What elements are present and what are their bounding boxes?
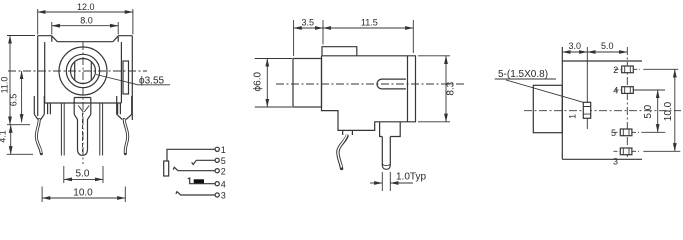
svg-text:3: 3 bbox=[221, 191, 226, 201]
side view straight pin bbox=[382, 137, 390, 170]
svg-text:1: 1 bbox=[221, 145, 226, 155]
side view dim 3.5 line bbox=[294, 27, 323, 29]
svg-text:1: 1 bbox=[568, 114, 578, 119]
side view dim phi6.0 line bbox=[266, 59, 268, 108]
front view body outline bbox=[38, 36, 133, 120]
dim 10.0 front line bbox=[42, 197, 125, 199]
front view inner bottom face bbox=[45, 102, 122, 104]
schematic wire pin1 bbox=[167, 149, 215, 161]
side view inner back line bbox=[407, 56, 409, 122]
dim 10.0 front extension lines bbox=[42, 187, 125, 203]
svg-text:ϕ3.55: ϕ3.55 bbox=[139, 76, 165, 87]
front view thin pin left bbox=[61, 103, 64, 156]
top view dim 5.0v extension lines bbox=[636, 90, 665, 132]
schematic wire pin5 bbox=[196, 159, 215, 161]
front view center pin bbox=[74, 114, 91, 155]
front view right bent leg bbox=[124, 119, 128, 154]
top view pin column centerline bbox=[626, 47, 628, 157]
top view dim 5.0h line bbox=[587, 51, 627, 53]
front view horizontal centerline bbox=[8, 70, 147, 72]
top view body bottom edge bbox=[562, 158, 642, 160]
svg-text:3.0: 3.0 bbox=[568, 41, 581, 51]
dim 8.0 extension lines bbox=[52, 22, 118, 35]
svg-text:2: 2 bbox=[221, 166, 226, 176]
svg-text:10.0: 10.0 bbox=[73, 187, 93, 198]
dim 11.0 extension lines bbox=[7, 36, 35, 125]
front view left slot stubs bbox=[48, 103, 51, 114]
top view pin1 extension line bbox=[586, 47, 588, 129]
top view pin 3 pad bbox=[614, 148, 640, 155]
schematic pin 4 circle bbox=[215, 182, 219, 186]
front view left post bbox=[34, 96, 44, 120]
schematic sleeve contact bbox=[164, 161, 169, 176]
side view dim 1.0Typ arrows bbox=[370, 182, 382, 184]
schematic wire pin4 bbox=[188, 178, 215, 184]
top view pin 5 pad bbox=[614, 129, 640, 136]
svg-text:5.0: 5.0 bbox=[601, 41, 614, 51]
front view center pin shoulder bbox=[74, 98, 91, 115]
svg-text:5.0: 5.0 bbox=[76, 168, 90, 179]
top view pin 1 pad bbox=[583, 102, 590, 118]
svg-text:1.0Typ: 1.0Typ bbox=[396, 171, 426, 182]
top view barrel bbox=[533, 85, 562, 132]
top view dim 10.0v extension lines bbox=[643, 69, 680, 151]
svg-text:11.5: 11.5 bbox=[361, 17, 378, 27]
side view front leg attachment bbox=[343, 130, 353, 135]
schematic pin4 contact pad bbox=[194, 179, 204, 183]
top view dim 10.0v line bbox=[674, 69, 676, 151]
front view hole left flat chord bbox=[74, 62, 76, 81]
dim 6.5 line bbox=[21, 71, 23, 122]
side view barrel bbox=[293, 59, 322, 108]
svg-text:4: 4 bbox=[613, 86, 618, 96]
front view inner wall right bbox=[120, 42, 122, 103]
front view vertical centerline bbox=[82, 42, 84, 164]
front view center pin dashed line bbox=[82, 113, 84, 152]
svg-text:5: 5 bbox=[611, 128, 616, 138]
dim 12.0 line bbox=[38, 11, 133, 13]
side view dim 8.3 extension lines bbox=[418, 56, 450, 122]
side view body outline bbox=[322, 56, 416, 131]
top view main centerline bbox=[524, 110, 681, 112]
dim 4.1 extension line bottom bbox=[7, 153, 33, 155]
side view dim 1.0Typ extension lines bbox=[382, 172, 390, 191]
front view hole right flat chord bbox=[90, 62, 92, 81]
schematic pin 3 circle bbox=[215, 193, 219, 197]
front view center pin funnel bbox=[78, 106, 89, 113]
front view right post bbox=[117, 96, 132, 120]
side view centerline bbox=[276, 83, 466, 85]
svg-text:3.5: 3.5 bbox=[301, 17, 314, 27]
side view pin shoulder bbox=[380, 122, 401, 137]
svg-text:6.5: 6.5 bbox=[9, 94, 19, 107]
svg-text:5: 5 bbox=[221, 156, 226, 166]
schematic pin 5 circle bbox=[215, 158, 219, 162]
schematic pin5 switch tick bbox=[192, 160, 197, 164]
svg-text:11.0: 11.0 bbox=[0, 77, 9, 94]
side view dim 11.5 line bbox=[323, 27, 413, 29]
top view dim 3.0 line bbox=[562, 51, 587, 53]
side view top tab bbox=[322, 47, 357, 56]
front view left bent leg bbox=[36, 119, 41, 154]
schematic wire pin2 bbox=[173, 167, 215, 170]
top view pin 4 pad bbox=[615, 87, 641, 94]
top view body left edge bbox=[561, 47, 563, 159]
schematic pin 1 circle bbox=[215, 147, 219, 151]
dim 5.0 front extension lines bbox=[64, 166, 103, 183]
dim 12.0 extension lines bbox=[38, 9, 133, 35]
svg-text:2: 2 bbox=[613, 65, 618, 75]
svg-text:4.1: 4.1 bbox=[0, 130, 8, 143]
svg-text:ϕ6.0: ϕ6.0 bbox=[253, 72, 264, 92]
svg-text:5-(1.5X0.8): 5-(1.5X0.8) bbox=[498, 69, 548, 80]
dim 4.1 line bbox=[10, 125, 12, 155]
svg-text:4: 4 bbox=[221, 179, 226, 189]
top view pin 2 pad bbox=[615, 66, 641, 73]
top view body top edge bbox=[562, 60, 642, 62]
front view inner wall left bbox=[44, 42, 46, 103]
top view dim 5.0v line bbox=[657, 90, 659, 132]
dim 8.0 line bbox=[52, 25, 118, 27]
schematic pin 2 circle bbox=[215, 169, 219, 173]
front view outer circle bbox=[59, 47, 107, 95]
schematic wire pin3 bbox=[176, 192, 215, 195]
top view leader underline bbox=[495, 78, 556, 80]
svg-text:8.3: 8.3 bbox=[446, 81, 457, 95]
svg-text:5.0: 5.0 bbox=[643, 104, 654, 118]
svg-text:10.0: 10.0 bbox=[663, 101, 674, 121]
dim 11.0 line bbox=[9, 36, 11, 125]
side view dim 8.3 line bbox=[445, 56, 447, 122]
leader phi3.55 bbox=[96, 75, 170, 85]
front view right slot stubs bbox=[118, 103, 121, 114]
side view slot capsule bbox=[377, 79, 406, 89]
dim 5.0 front line bbox=[64, 178, 103, 180]
front view inner hole circle bbox=[71, 59, 96, 84]
side view phi6.0 extension lines bbox=[255, 59, 292, 108]
front view thin pin right bbox=[100, 103, 103, 156]
front view middle circle bbox=[66, 54, 99, 87]
side view dim 3.5 11.5 extension lines bbox=[294, 20, 414, 56]
svg-text:3: 3 bbox=[613, 156, 618, 166]
side view pin tip arc bbox=[382, 164, 390, 166]
top view leader line bbox=[506, 80, 583, 102]
front view right side slot bbox=[123, 61, 129, 94]
svg-text:12.0: 12.0 bbox=[77, 2, 95, 12]
svg-text:8.0: 8.0 bbox=[80, 16, 93, 26]
side view front bent leg bbox=[338, 135, 347, 169]
